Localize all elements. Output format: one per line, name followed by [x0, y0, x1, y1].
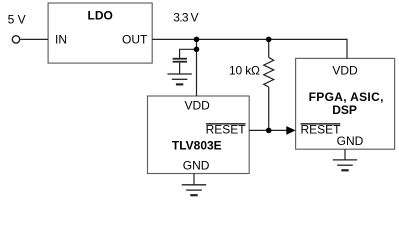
svg-text:5 V: 5 V [8, 12, 26, 26]
svg-text:GND: GND [183, 158, 210, 172]
svg-text:DSP: DSP [332, 103, 357, 117]
svg-text:FPGA, ASIC,: FPGA, ASIC, [309, 90, 384, 104]
svg-text:IN: IN [55, 33, 67, 47]
svg-text:3.3 V: 3.3 V [173, 11, 198, 25]
svg-text:GND: GND [337, 134, 364, 148]
svg-text:10 kΩ: 10 kΩ [229, 64, 260, 78]
svg-text:TLV803E: TLV803E [172, 138, 222, 152]
svg-text:VDD: VDD [332, 64, 358, 78]
svg-text:VDD: VDD [185, 99, 211, 113]
svg-text:LDO: LDO [88, 9, 113, 23]
svg-text:OUT: OUT [122, 33, 148, 47]
